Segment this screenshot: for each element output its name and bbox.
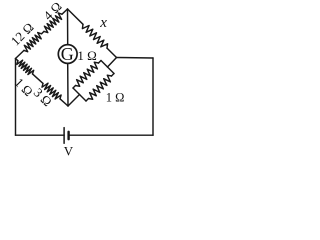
svg-text:G: G — [61, 44, 74, 64]
wire: right node to right rail — [117, 57, 154, 60]
wire: bottom rail right segment — [69, 134, 153, 136]
galvanometer U1 circle — [58, 45, 77, 64]
svg-text:1 Ω: 1 Ω — [106, 90, 125, 104]
wire: lower branch lead-in — [86, 99, 89, 102]
wire: upper branch lead-out — [99, 61, 102, 64]
resistor R6 1 ohm upper parallel — [76, 62, 99, 86]
wire: top node to galvanometer — [67, 9, 69, 45]
wire: junction J2 lower connector — [108, 67, 115, 74]
resistor R1 12 ohm — [24, 33, 42, 52]
wire: resistor x to right node — [107, 48, 117, 57]
wire: galvanometer to bottom node — [67, 63, 69, 106]
resistor R4 1 ohm — [17, 60, 34, 74]
wire: right rail down — [152, 58, 154, 135]
wire: 3ohm to bottom node — [60, 99, 68, 106]
wire: between 1ohm and 3ohm — [33, 74, 44, 84]
resistor R3 x — [82, 24, 107, 48]
wire: junction J2 upper connector — [101, 61, 108, 68]
wire: left node down — [15, 59, 17, 136]
battery V short plate — [67, 132, 69, 139]
wire: junction J1 lower connector — [80, 95, 87, 102]
resistor R5 3 ohm — [42, 83, 61, 99]
wire: 4ohm to top node — [62, 9, 68, 14]
wire: between 12ohm and 4ohm — [42, 31, 45, 33]
wire: left node to 1ohm resistor — [16, 59, 19, 61]
wire: bottom node to parallel junction J1 — [68, 95, 80, 107]
resistor R7 1 ohm lower parallel — [89, 75, 112, 99]
wire: upper branch lead-in — [73, 86, 76, 89]
wire: lower branch lead-out — [112, 74, 115, 77]
wire: left node to 12ohm resistor — [16, 50, 25, 58]
wire: bottom rail left segment — [16, 134, 65, 136]
wire: junction J2 to right node — [108, 58, 117, 68]
battery V long plate — [63, 128, 65, 144]
wire: junction J1 upper connector — [73, 88, 80, 95]
wire: top node to resistor x — [68, 9, 84, 24]
svg-text:1 Ω: 1 Ω — [77, 48, 96, 63]
resistor R2 4 ohm — [44, 13, 62, 33]
svg-text:x: x — [99, 15, 107, 31]
svg-text:V: V — [64, 144, 74, 159]
